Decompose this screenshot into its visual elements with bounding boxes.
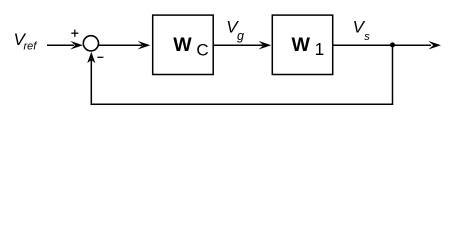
summing junction circle (83, 36, 98, 51)
block W1 rectangle (272, 15, 332, 74)
svg-text:W: W (173, 34, 192, 56)
node Vg label (226, 17, 244, 43)
wire Vref to summing junction (47, 44, 74, 46)
block WC rectangle (153, 15, 214, 74)
wire summing junction to block WC (98, 44, 142, 46)
arrowhead into block W1 (259, 41, 272, 50)
label WC (173, 34, 208, 60)
junction node dot (390, 42, 395, 47)
plus sign (71, 30, 78, 37)
svg-text:ref: ref (24, 41, 38, 53)
svg-text:g: g (237, 29, 244, 43)
node Vs label (353, 17, 371, 43)
node Vref label (14, 30, 38, 52)
minus sign (97, 56, 103, 58)
label W1 (292, 34, 325, 59)
wire feedback right vertical (392, 45, 394, 104)
wire block WC to block W1 (213, 44, 263, 46)
arrowhead into summing junction (70, 41, 83, 50)
svg-text:W: W (292, 34, 311, 56)
svg-text:s: s (364, 31, 370, 43)
arrowhead into summing junction from below (87, 52, 95, 64)
wire feedback bottom horizontal (91, 103, 394, 105)
svg-text:1: 1 (315, 39, 325, 59)
arrowhead into block WC (138, 41, 151, 50)
output arrowhead (428, 41, 441, 50)
wire block W1 to output (333, 44, 431, 46)
svg-text:C: C (196, 40, 208, 59)
wire feedback left vertical (90, 60, 92, 105)
